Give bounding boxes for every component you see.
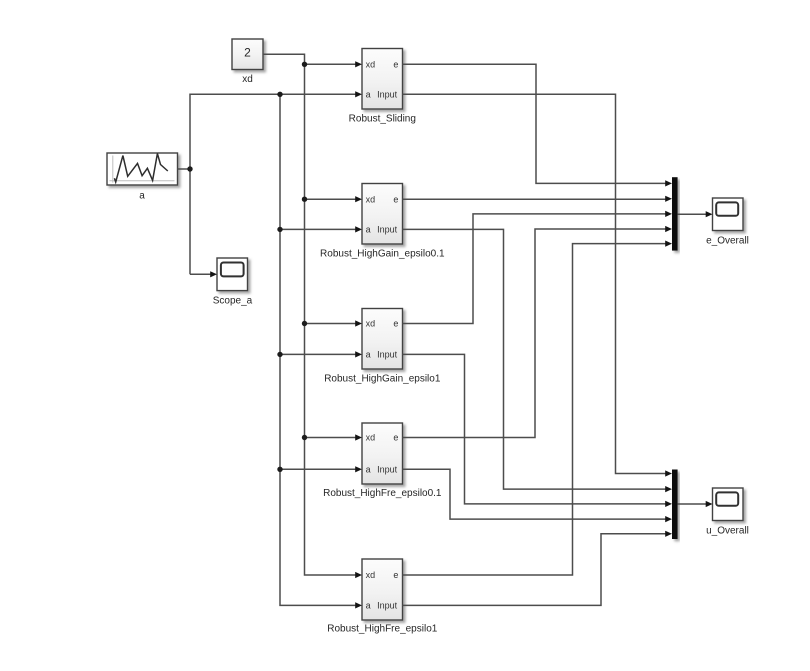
signal source block a (107, 153, 178, 202)
scope block Scope_a (213, 258, 253, 306)
wire a source stub (178, 168, 191, 170)
subsystem block Robust_HighGain_epsilo1 (324, 309, 441, 385)
wire xd branch to Robust_Sliding (305, 61, 363, 67)
arrowhead xd into Robust_HighFre_epsilo1 (355, 572, 362, 578)
wire Mux_u output to u_Overall (678, 501, 713, 507)
svg-text:Scope_a: Scope_a (213, 295, 253, 306)
svg-text:e: e (393, 194, 398, 204)
svg-text:Input: Input (377, 225, 398, 235)
wire e2 HighGain0.1.e to Mux_e in2 (403, 196, 673, 202)
svg-text:xd: xd (366, 319, 376, 329)
wire a bus trunk (280, 94, 356, 605)
subsystem block Robust_HighGain_epsilo0.1 (320, 184, 445, 260)
junction xd-HighGain0.1 (302, 197, 307, 202)
svg-text:xd: xd (366, 570, 376, 580)
svg-text:xd: xd (366, 60, 376, 70)
svg-text:Robust_HighGain_epsilo1: Robust_HighGain_epsilo1 (324, 374, 441, 385)
svg-text:xd: xd (366, 194, 376, 204)
wire xd branch to Robust_HighGain_epsilo0.1 (305, 196, 363, 202)
junction xd-HighGain1 (302, 321, 307, 326)
svg-text:xd: xd (366, 433, 376, 443)
svg-text:Robust_HighGain_epsilo0.1: Robust_HighGain_epsilo0.1 (320, 249, 445, 260)
svg-text:Robust_HighFre_epsilo1: Robust_HighFre_epsilo1 (327, 624, 438, 635)
constant block xd (value 2) (232, 39, 263, 85)
junction a-source split (187, 166, 192, 171)
wire e5 HighFre1.e to Mux_e in5 (403, 241, 673, 576)
svg-text:a: a (139, 191, 145, 202)
wire u2 HighGain0.1.Input to Mux_u in2 (403, 229, 673, 492)
svg-text:e: e (393, 433, 398, 443)
wire xd branch to Robust_HighFre_epsilo0.1 (305, 434, 363, 440)
subsystem block Robust_HighFre_epsilo0.1 (323, 423, 442, 499)
wire u3 HighGain1.Input to Mux_u in3 (403, 354, 673, 507)
subsystem block Robust_Sliding (349, 49, 416, 125)
wire e4 HighFre0.1.e to Mux_e in4 (403, 226, 673, 438)
mux Mux_e (inputs to e_Overall) (672, 177, 678, 250)
svg-text:e: e (393, 60, 398, 70)
junction xd-Robust_Sliding (302, 62, 307, 67)
svg-text:a: a (366, 465, 371, 475)
svg-text:Robust_Sliding: Robust_Sliding (349, 114, 416, 125)
wire xd branch to Robust_HighGain_epsilo1 (305, 320, 363, 326)
svg-text:a: a (366, 225, 371, 235)
scope block u_Overall (706, 488, 749, 537)
wire Mux_e output to e_Overall (678, 211, 713, 217)
junction a-HighGain0.1 (277, 227, 282, 232)
svg-text:e_Overall: e_Overall (706, 236, 749, 247)
junction a-HighGain1 (277, 352, 282, 357)
svg-text:xd: xd (242, 74, 253, 85)
svg-text:e: e (393, 570, 398, 580)
svg-text:Input: Input (377, 350, 398, 360)
wire a riser up to row and down to Scope_a (190, 91, 362, 277)
arrowhead a into Robust_HighFre_epsilo1 (355, 602, 362, 608)
wire a branch to Robust_HighGain_epsilo0.1 (280, 226, 362, 232)
wire u4 HighFre0.1.Input to Mux_u in4 (403, 469, 673, 522)
wire u1 Robust_Sliding.Input to Mux_u in1 (403, 94, 673, 476)
svg-text:a: a (366, 90, 371, 100)
wire xd net trunk from constant xd down the bus (263, 54, 356, 575)
mux Mux_u (inputs to u_Overall) (672, 470, 678, 540)
svg-text:u_Overall: u_Overall (706, 526, 749, 537)
junction a-top row (277, 92, 282, 97)
subsystem block Robust_HighFre_epsilo1 (327, 559, 438, 635)
svg-text:a: a (366, 601, 371, 611)
svg-text:a: a (366, 350, 371, 360)
wire a branch to Robust_HighFre_epsilo0.1 (280, 466, 362, 472)
junction a-HighFre0.1 (277, 467, 282, 472)
wire e3 HighGain1.e to Mux_e in3 (403, 211, 673, 324)
svg-text:Input: Input (377, 465, 398, 475)
svg-text:2: 2 (244, 45, 251, 59)
svg-text:e: e (393, 319, 398, 329)
wire e1 Robust_Sliding.e to Mux_e in1 (403, 64, 673, 186)
wire a branch to Robust_HighGain_epsilo1 (280, 351, 362, 357)
junction xd-HighFre0.1 (302, 435, 307, 440)
svg-text:Robust_HighFre_epsilo0.1: Robust_HighFre_epsilo0.1 (323, 488, 442, 499)
svg-text:Input: Input (377, 90, 398, 100)
svg-text:Input: Input (377, 601, 398, 611)
wire u5 HighFre1.Input to Mux_u in5 (403, 531, 673, 606)
scope block e_Overall (706, 198, 749, 247)
